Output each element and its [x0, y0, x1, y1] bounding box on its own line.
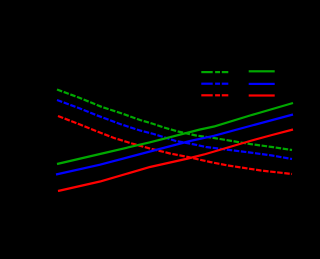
legend dashed green sample	[201, 71, 228, 73]
dashed green curve (descending)	[57, 90, 292, 151]
dashed red curve (descending)	[58, 116, 292, 174]
legend dashed red sample	[201, 94, 228, 96]
legend solid red sample	[249, 94, 275, 96]
solid blue curve (ascending)	[56, 115, 293, 175]
legend solid green sample	[249, 70, 275, 72]
legend solid blue sample	[249, 83, 275, 85]
dashed blue curve (descending)	[57, 100, 292, 159]
legend dashed blue sample	[201, 83, 228, 85]
solid green curve (ascending)	[57, 103, 293, 164]
solid red curve (ascending)	[58, 130, 293, 192]
